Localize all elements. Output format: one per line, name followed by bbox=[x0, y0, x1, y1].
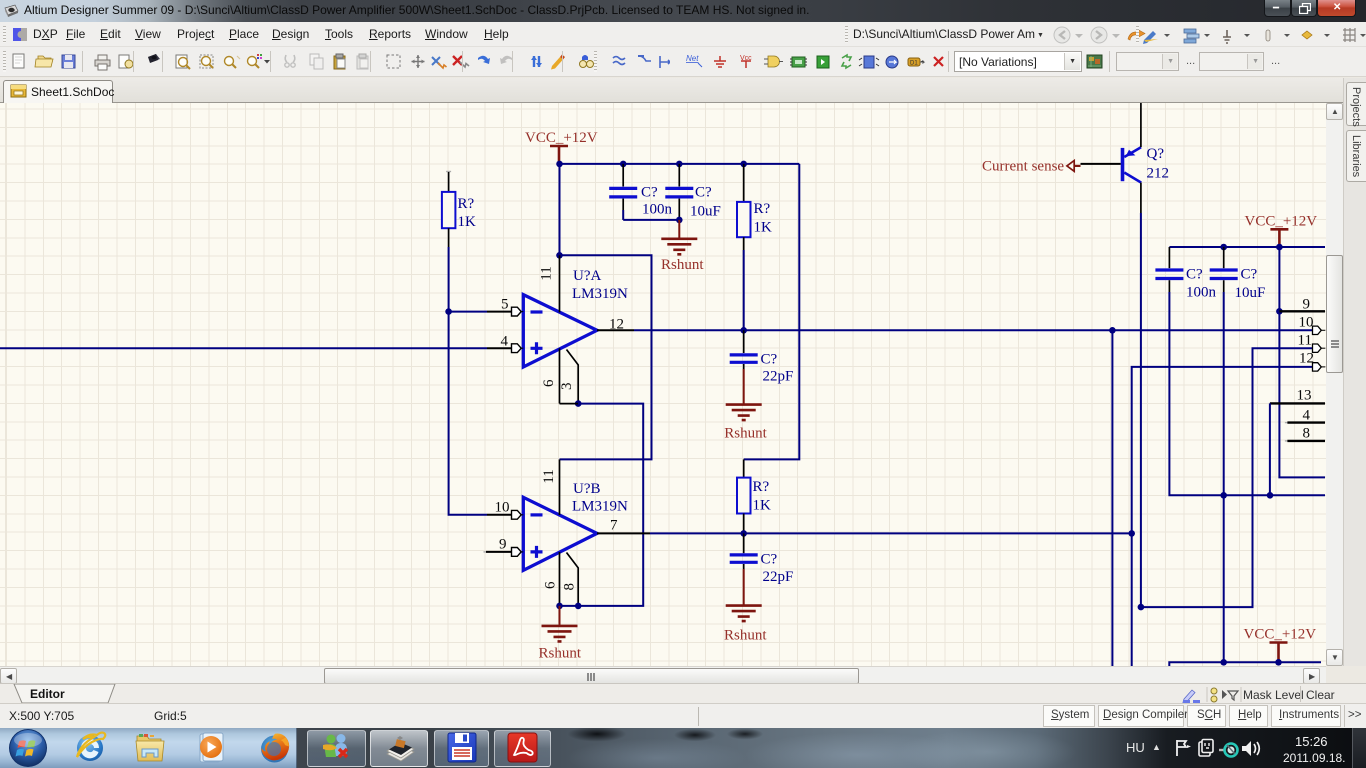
resistor R1 1K (left column) bbox=[442, 172, 456, 312]
wire 100n down to y=495.3 and right bbox=[1169, 292, 1325, 495]
label C? (100n right) bbox=[1186, 267, 1203, 283]
pin number 11 (U?A, rotated) bbox=[538, 266, 554, 280]
label R? (middle) bbox=[753, 479, 770, 495]
value 100n (right) bbox=[1186, 285, 1217, 301]
pin number 3 (U?A, rotated) bbox=[559, 382, 575, 390]
value 212 bbox=[1147, 166, 1170, 182]
svg-text:9: 9 bbox=[499, 537, 507, 553]
pin number 13 (right part) bbox=[1297, 388, 1312, 404]
value 22pF (lower) bbox=[763, 569, 794, 585]
wire 10uF down to bottom rail bbox=[1223, 292, 1225, 662]
pin number 11 (U?B, rotated) bbox=[541, 469, 557, 483]
wire U?A output net (long, y=330.3) bbox=[634, 329, 1313, 331]
svg-text:13: 13 bbox=[1297, 388, 1312, 404]
svg-text:D1: D1 bbox=[910, 61, 918, 67]
pin number 8 (right part) bbox=[1303, 426, 1311, 442]
label C? (100n) bbox=[641, 185, 658, 201]
svg-text:1K: 1K bbox=[458, 214, 477, 230]
capacitor C4 22pF (lower) bbox=[730, 533, 758, 569]
adobe reader icon bbox=[506, 731, 539, 764]
svg-text:22pF: 22pF bbox=[763, 369, 794, 385]
pin number 11 (right part) bbox=[1298, 333, 1312, 349]
pin 4 (right part) bbox=[1285, 422, 1325, 424]
pin number 7 bbox=[610, 518, 618, 534]
wire top-right VCC rail bbox=[1169, 246, 1325, 248]
svg-text:C?: C? bbox=[1241, 267, 1258, 283]
taskbar app buttons bbox=[307, 730, 366, 767]
svg-text:Rshunt: Rshunt bbox=[661, 257, 704, 273]
label C? (22pF lower) bbox=[761, 552, 778, 568]
wire pin 13 down to y=495.3 bbox=[1269, 403, 1271, 495]
value 10uF (right) bbox=[1235, 285, 1266, 301]
junction at (578.2,605.9) bbox=[575, 603, 582, 610]
svg-text:C?: C? bbox=[761, 352, 778, 368]
junction at (1140.9,607.1) bbox=[1138, 604, 1145, 611]
pin 11 of U?A bbox=[559, 255, 561, 312]
wallpaper smoke visible through glass bbox=[297, 728, 1366, 768]
svg-text:12: 12 bbox=[609, 317, 624, 333]
pin 11 of U?B bbox=[559, 459, 561, 515]
svg-text:LM319N: LM319N bbox=[572, 286, 628, 302]
power symbol VCC_+12V (bottom right) bbox=[1244, 627, 1317, 663]
svg-text:22pF: 22pF bbox=[763, 569, 794, 585]
op-amp U?B LM319N bbox=[523, 497, 597, 570]
designator Q? bbox=[1147, 146, 1165, 162]
junction on VCC rail at x=623.2 bbox=[620, 161, 627, 168]
wire long input net to U?A pin 4 bbox=[0, 347, 487, 349]
svg-text:Q?: Q? bbox=[1147, 146, 1165, 162]
pin number 12 bbox=[609, 317, 624, 333]
svg-text:12: 12 bbox=[1299, 351, 1314, 367]
wire VCC drop to U?A pin 11 corner bbox=[559, 164, 561, 255]
pin 8 (right part) bbox=[1285, 440, 1325, 442]
label C? (10uF right) bbox=[1241, 267, 1258, 283]
svg-text:VCC_+12V: VCC_+12V bbox=[1244, 627, 1317, 643]
junction at (1279.4,247) bbox=[1276, 244, 1283, 251]
svg-text:1K: 1K bbox=[754, 220, 773, 236]
wire U?B output net (y=533.4) bbox=[650, 532, 1132, 534]
value 1K (left) bbox=[458, 214, 477, 230]
power symbol VCC_+12V top bbox=[525, 130, 598, 163]
svg-text:Editor: Editor bbox=[30, 687, 65, 701]
pin number 6 (U?B, rotated) bbox=[542, 581, 558, 589]
wire pin 12 net (corner + down) bbox=[1132, 367, 1313, 666]
pin 11 arrow (right part) bbox=[1313, 344, 1326, 352]
junction on VCC rail at x=559.5 bbox=[556, 161, 563, 168]
wire U?A gnd pins to feedback loop bbox=[560, 404, 644, 606]
junction at (1279.4,311.3) bbox=[1276, 308, 1283, 315]
transistor Q1 bbox=[1121, 147, 1142, 182]
junction at U?A pin5 (448.6,311.6) bbox=[445, 308, 452, 315]
svg-text:R?: R? bbox=[458, 196, 475, 212]
pin 10 of U?B bbox=[487, 510, 523, 519]
pin 12 arrow (right part) bbox=[1313, 363, 1326, 371]
pin number 4 bbox=[501, 334, 509, 350]
svg-text:3: 3 bbox=[559, 382, 575, 390]
op-amp U?A LM319N bbox=[523, 295, 597, 367]
wire VCC top rail bbox=[560, 163, 800, 165]
junction at VCC branch (559.5,255.3) bbox=[556, 252, 563, 259]
capacitor C5 100n (right) bbox=[1155, 247, 1183, 292]
pin 9 (right part) bbox=[1279, 310, 1325, 312]
svg-text:U?B: U?B bbox=[573, 481, 601, 497]
svg-text:C?: C? bbox=[1186, 267, 1203, 283]
pin 7 output of U?B bbox=[597, 532, 650, 534]
ground Rshunt (under 22pF upper) bbox=[724, 369, 767, 442]
value 1K (middle) bbox=[753, 498, 772, 514]
pin 12 output of U?A bbox=[597, 329, 634, 331]
left light blue dock strip bbox=[0, 728, 297, 768]
svg-text:1K: 1K bbox=[753, 498, 772, 514]
junction at (1131.7,533.4) bbox=[1128, 530, 1135, 537]
designator U?A bbox=[573, 268, 601, 284]
svg-text:5: 5 bbox=[501, 297, 509, 313]
wire Q collector up bbox=[1140, 103, 1142, 147]
pin 5 of U?A bbox=[449, 307, 524, 316]
svg-text:11: 11 bbox=[1298, 333, 1312, 349]
svg-text:Rshunt: Rshunt bbox=[539, 646, 582, 662]
svg-text:Net: Net bbox=[686, 54, 699, 63]
pin number 9 (right part) bbox=[1303, 297, 1311, 313]
svg-text:8: 8 bbox=[561, 583, 577, 591]
wire bottom-right VCC rail bbox=[1169, 662, 1321, 666]
label C? (22pF upper) bbox=[761, 352, 778, 368]
pin 6 of U?A bbox=[559, 348, 561, 403]
svg-text:4: 4 bbox=[501, 334, 509, 350]
label R? (top) bbox=[754, 201, 771, 217]
ground Rshunt (under 10uF) bbox=[661, 220, 704, 273]
svg-text:6: 6 bbox=[542, 581, 558, 589]
pin 13 (right part) bbox=[1270, 402, 1325, 404]
pin 4 of U?A bbox=[487, 344, 523, 353]
pin number 12 (right part) bbox=[1299, 351, 1314, 367]
pin 8 of U?B bbox=[567, 553, 579, 606]
pin base lead of Q bbox=[1081, 163, 1121, 165]
svg-text:C?: C? bbox=[695, 185, 712, 201]
pin number 6 (U?A, rotated) bbox=[541, 379, 557, 387]
svg-text:R?: R? bbox=[753, 479, 770, 495]
value 100n bbox=[642, 202, 673, 218]
folder icon bbox=[134, 733, 168, 765]
capacitor C6 10uF (right) bbox=[1210, 247, 1238, 292]
svg-text:Current sense: Current sense bbox=[982, 159, 1064, 175]
resistor R2 1K (top, x=743.7) bbox=[737, 164, 751, 330]
pin 10 arrow (right part) bbox=[1313, 326, 1326, 334]
svg-text:10: 10 bbox=[495, 500, 510, 516]
floppy icon bbox=[445, 731, 479, 765]
svg-text:C?: C? bbox=[641, 185, 658, 201]
value 22pF (upper) bbox=[763, 369, 794, 385]
svg-text:Rshunt: Rshunt bbox=[724, 426, 767, 442]
IE icon bbox=[73, 731, 107, 765]
ground Rshunt (under 22pF lower) bbox=[724, 569, 767, 644]
pin number 4 (right part) bbox=[1303, 408, 1311, 424]
label R? (left) bbox=[458, 196, 475, 212]
wire right rail of VCC loop (x=799.3) bbox=[744, 164, 800, 460]
svg-text:11: 11 bbox=[538, 266, 554, 280]
value 10uF bbox=[690, 204, 721, 220]
start orb bbox=[8, 728, 48, 768]
svg-text:9: 9 bbox=[1303, 297, 1311, 313]
designator U?B bbox=[573, 481, 601, 497]
port Current sense bbox=[982, 159, 1081, 175]
pin 3 of U?A bbox=[567, 350, 579, 404]
junction at (743.7,330.3) bbox=[740, 327, 747, 334]
wmp icon bbox=[194, 732, 228, 765]
pin number 9 bbox=[499, 537, 507, 553]
value 1K (top) bbox=[754, 220, 773, 236]
wire VCC stem column x=1279.4 with corner to part bbox=[1279, 247, 1325, 477]
junction at (1270,495.3) bbox=[1267, 492, 1274, 499]
svg-text:4: 4 bbox=[1303, 408, 1311, 424]
part name LM319N (U?A) bbox=[572, 286, 628, 302]
junction at (559.5,605.9) bbox=[556, 603, 563, 610]
pin 6 of U?B bbox=[559, 552, 561, 606]
junction at (1112.4,330.3) bbox=[1109, 327, 1116, 334]
junction on VCC rail at x=743.7 bbox=[740, 161, 747, 168]
wire joining cap bottoms bbox=[623, 219, 679, 221]
capacitor C3 22pF (upper) bbox=[730, 330, 758, 369]
tray bbox=[1126, 740, 1145, 755]
power symbol VCC_+12V (middle right) bbox=[1245, 214, 1318, 248]
junction at (1278.5,662.3) bbox=[1275, 659, 1282, 666]
wire to U?B pin 10 (left column down and right) bbox=[449, 312, 487, 515]
junction at (743.7,533.4) bbox=[740, 530, 747, 537]
pin 9 of U?B bbox=[484, 548, 524, 557]
svg-text:10uF: 10uF bbox=[690, 204, 721, 220]
capacitor C2 10uF (top left pair) bbox=[665, 164, 693, 220]
wire net at x=1112.4 going down bbox=[1111, 330, 1113, 666]
junction at (1223.7,495.3) bbox=[1220, 492, 1227, 499]
svg-text:8: 8 bbox=[1303, 426, 1311, 442]
part name LM319N (U?B) bbox=[572, 499, 628, 515]
wire Q emitter down bbox=[1140, 183, 1142, 607]
pin number 8 (U?B, rotated) bbox=[561, 583, 577, 591]
resistor R3 1K (middle right) bbox=[737, 459, 751, 533]
firefox icon bbox=[257, 731, 292, 766]
pin number 10 bbox=[495, 500, 510, 516]
svg-text:VCC_+12V: VCC_+12V bbox=[1245, 214, 1318, 230]
svg-text:10: 10 bbox=[1299, 315, 1314, 331]
wire pin 11 net loop (down right up) bbox=[1141, 348, 1313, 607]
svg-text:C?: C? bbox=[761, 552, 778, 568]
svg-text:100n: 100n bbox=[1186, 285, 1217, 301]
wire VCC loop to U?B pin 11 bbox=[560, 255, 652, 459]
svg-text:7: 7 bbox=[610, 518, 618, 534]
svg-text:VCC_+12V: VCC_+12V bbox=[525, 130, 598, 146]
pin number 5 bbox=[501, 297, 509, 313]
svg-text:R?: R? bbox=[754, 201, 771, 217]
book reader icon bbox=[382, 732, 418, 765]
junction on VCC rail at x=679.3 bbox=[676, 161, 683, 168]
pin number 10 (right part) bbox=[1299, 315, 1314, 331]
svg-text:6: 6 bbox=[541, 379, 557, 387]
svg-text:11: 11 bbox=[541, 469, 557, 483]
junction at (1223.7,662.3) bbox=[1220, 659, 1227, 666]
svg-text:Rshunt: Rshunt bbox=[724, 628, 767, 644]
junction at (1223.7,247) bbox=[1220, 244, 1227, 251]
svg-text:100n: 100n bbox=[642, 202, 673, 218]
label C? (10uF) bbox=[695, 185, 712, 201]
show desktop bbox=[1352, 728, 1353, 768]
ground Rshunt (under U?B) bbox=[539, 606, 582, 662]
svg-text:LM319N: LM319N bbox=[572, 499, 628, 515]
svg-text:U?A: U?A bbox=[573, 268, 601, 284]
junction at (578.2,403.6) bbox=[575, 400, 582, 407]
capacitor C1 100n (top left pair) bbox=[609, 164, 637, 220]
junction at (679.3,219.9) bbox=[676, 217, 683, 224]
svg-text:212: 212 bbox=[1147, 166, 1170, 182]
svg-text:10uF: 10uF bbox=[1235, 285, 1266, 301]
msn icon bbox=[321, 733, 353, 763]
